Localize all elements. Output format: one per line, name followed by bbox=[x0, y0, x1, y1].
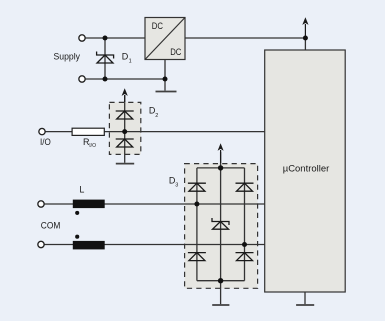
diode D3 bottom-left bbox=[188, 253, 206, 261]
resistor R_IO bbox=[72, 128, 104, 135]
inductor L upper (COM) bbox=[73, 200, 105, 215]
arrow D3 top bbox=[218, 143, 224, 163]
junction dot D3 left / COM upper bbox=[194, 202, 199, 207]
svg-text:COM: COM bbox=[41, 220, 61, 230]
wire D2 branch vertical bbox=[124, 95, 126, 163]
ground uController bbox=[296, 304, 314, 306]
wire COM lower rail bbox=[44, 244, 265, 246]
inductor L lower (COM) bbox=[73, 235, 105, 250]
terminal supply - bbox=[79, 76, 85, 82]
suppressor box D3 (dashed) bbox=[185, 164, 258, 289]
terminal supply + bbox=[79, 35, 85, 41]
svg-text:I/O: I/O bbox=[40, 137, 51, 147]
junction dot DC/DC ground bbox=[163, 77, 168, 82]
wire I/O rail bbox=[45, 131, 265, 133]
suppressor box D2 (dashed) bbox=[109, 102, 140, 154]
wire COM upper rail bbox=[44, 203, 265, 205]
arrow Vcc top right bbox=[302, 17, 308, 38]
junction dot D3 right / COM lower bbox=[242, 242, 247, 247]
svg-text:Supply: Supply bbox=[54, 51, 81, 61]
wire Vcc drop to uController bbox=[304, 38, 306, 50]
diode D2 top bbox=[116, 111, 134, 119]
wire supply bottom rail bbox=[85, 78, 165, 80]
diode D3 top-left bbox=[188, 183, 206, 191]
junction dot supply bottom / D1 bbox=[103, 77, 108, 82]
junction dot Vcc node bbox=[303, 36, 308, 41]
svg-text:L: L bbox=[79, 185, 84, 195]
junction dot D3 top node bbox=[218, 165, 223, 170]
diode D3 bottom-right bbox=[236, 253, 254, 261]
uController U1 bbox=[265, 50, 346, 292]
wire D1 branch bbox=[104, 38, 106, 79]
wire DC/DC ground drop bbox=[164, 60, 166, 91]
svg-text:I/O: I/O bbox=[89, 143, 96, 149]
svg-text:DC: DC bbox=[152, 21, 163, 32]
wire uController ground drop bbox=[304, 292, 306, 304]
terminal I/O bbox=[39, 128, 45, 134]
junction dot I/O / D2 node bbox=[122, 129, 127, 134]
wire D3 bridge right vertical bbox=[244, 168, 246, 281]
svg-text:2: 2 bbox=[155, 113, 158, 119]
svg-text:1: 1 bbox=[129, 59, 132, 65]
wire D3 bridge top horizontal bbox=[197, 167, 245, 169]
junction dot D3 bottom node bbox=[218, 278, 223, 283]
svg-text:3: 3 bbox=[175, 183, 178, 189]
ground D2 bbox=[116, 163, 134, 165]
diode D3 top-right bbox=[236, 183, 254, 191]
wire D3 bridge bottom horizontal bbox=[197, 280, 245, 282]
arrow D2 top bbox=[122, 88, 128, 102]
wire D3 center vertical bbox=[220, 152, 222, 281]
svg-text:µController: µController bbox=[283, 163, 330, 174]
DC/DC converter box bbox=[145, 18, 185, 60]
ground DC/DC bbox=[156, 91, 177, 93]
junction dot supply top / D1 bbox=[103, 36, 108, 41]
svg-text:DC: DC bbox=[170, 47, 181, 58]
diode D2 bottom bbox=[116, 139, 134, 147]
wire supply top rail right bbox=[185, 37, 305, 39]
wire supply top rail left bbox=[85, 37, 145, 39]
terminal COM upper bbox=[38, 201, 44, 207]
zener diode D3 center bbox=[212, 218, 229, 229]
zener diode D1 bbox=[97, 52, 114, 64]
wire D3 bridge left vertical bbox=[196, 168, 198, 281]
terminal COM lower bbox=[38, 241, 44, 247]
wire D3 ground drop bbox=[220, 281, 222, 305]
ground D3 bbox=[212, 304, 229, 306]
